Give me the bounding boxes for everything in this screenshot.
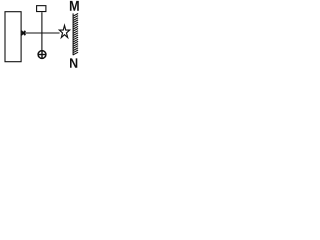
- lamp (circle with cross): [38, 50, 47, 59]
- label N (net N): [70, 58, 77, 67]
- wall hatch bar: [73, 13, 78, 55]
- label M (net M): [70, 1, 79, 11]
- star symbol: [59, 25, 69, 37]
- junction box (small top box): [37, 6, 46, 12]
- cabinet/door rectangle: [5, 12, 21, 62]
- wire: vertical drop from junction box to lamp: [41, 12, 43, 50]
- wire: horizontal run from switch to star: [22, 32, 60, 34]
- switch bowtie on cabinet edge: [21, 31, 25, 35]
